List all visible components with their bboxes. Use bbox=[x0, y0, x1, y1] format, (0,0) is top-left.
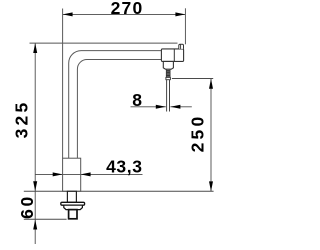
mounting flange washer bbox=[61, 202, 85, 205]
aerator collar bbox=[166, 77, 171, 79]
dimension 325 top arrow bbox=[33, 43, 37, 53]
aerator ribs bbox=[166, 69, 170, 70]
spout mid contour line bbox=[69, 51, 162, 159]
upper shank below deck bbox=[67, 191, 76, 202]
dimension 8 line left bbox=[131, 106, 166, 108]
extension line outlet bottom for 250 bbox=[172, 78, 213, 80]
faucet lever top line bbox=[30, 42, 178, 44]
dimension 8 line right bbox=[170, 106, 191, 108]
svg-text:250: 250 bbox=[188, 114, 208, 153]
dimension 250 line bbox=[210, 79, 212, 192]
faucet left edge / extension line 270 left bbox=[62, 9, 64, 159]
svg-text:325: 325 bbox=[12, 100, 32, 139]
lever front tab bbox=[179, 44, 184, 49]
dimension 43,3 right arrow bbox=[81, 172, 91, 176]
faucet body cylinder bbox=[63, 158, 81, 191]
dimension 270 left arrow bbox=[63, 12, 73, 16]
dimension 270 line bbox=[63, 13, 186, 15]
dimension 250 top arrow bbox=[209, 79, 213, 89]
lever tab inner line bbox=[180, 45, 182, 49]
svg-text:43,3: 43,3 bbox=[106, 156, 142, 176]
dimension 43,3 line bbox=[35, 173, 142, 175]
dimension 325 bottom arrow bbox=[33, 181, 37, 191]
outlet tube right line bbox=[169, 80, 171, 112]
spout inner contour line bbox=[77, 60, 161, 159]
outlet connector bbox=[163, 61, 173, 69]
countertop deck line bbox=[24, 190, 214, 192]
outlet tube left line bbox=[166, 80, 168, 112]
svg-text:270: 270 bbox=[111, 0, 144, 18]
spout head block bbox=[161, 49, 183, 62]
threaded shank bbox=[69, 210, 77, 219]
svg-text:60: 60 bbox=[17, 194, 37, 219]
locknut bbox=[64, 205, 83, 209]
extension line shank bottom for 60 bbox=[24, 218, 67, 220]
dimension 60 bottom arrow bbox=[33, 220, 37, 230]
dimension 43,3 left arrow bbox=[53, 172, 63, 176]
dimension 8 left arrow bbox=[156, 105, 166, 109]
dimension 270 right arrow bbox=[175, 12, 185, 16]
dimension 250 bottom arrow bbox=[209, 181, 213, 191]
svg-text:8: 8 bbox=[132, 90, 143, 110]
dimension 8 right arrow bbox=[170, 105, 180, 109]
extension line right of 270 bbox=[184, 8, 186, 44]
dimension 325/60 vertical line bbox=[34, 43, 36, 244]
spout head division line bbox=[173, 49, 175, 62]
